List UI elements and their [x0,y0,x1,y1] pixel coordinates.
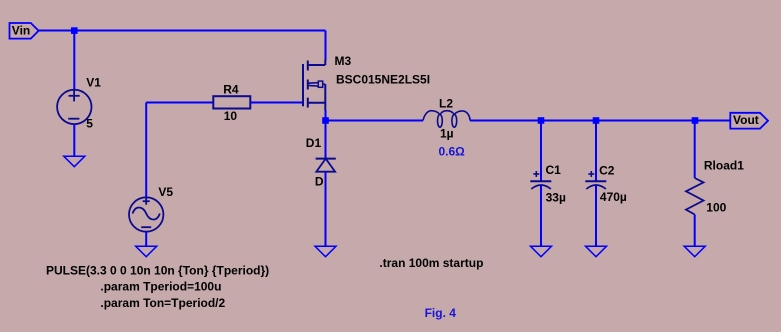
value 470µ [600,190,627,204]
junction node Vin/V1 [71,27,78,34]
svg-text:R4: R4 [223,82,239,96]
svg-text:Vout: Vout [733,113,759,127]
svg-text:1µ: 1µ [440,127,454,141]
port flag Vin [10,23,39,39]
value 10 [224,109,238,123]
directive .param Tperiod [100,280,221,294]
label C2 [599,164,615,178]
wire Rload top [694,121,696,179]
wire C1 bottom to ground [540,185,542,246]
directive .tran [379,256,483,270]
ground C2 [586,246,607,256]
value BSC015NE2LS5I [336,73,430,87]
wire M3 source to switch node [325,110,327,121]
value 33µ [546,190,566,204]
voltage source V1 [57,90,91,124]
svg-text:.tran 100m startup: .tran 100m startup [379,256,483,270]
ground V5 [136,246,157,256]
label 0.6Ω [439,145,466,159]
junction switch node [322,117,329,124]
capacitor C1 [530,171,551,189]
svg-text:V1: V1 [86,76,101,90]
resistor Rload1 [686,178,704,215]
svg-text:M3: M3 [335,54,352,68]
svg-text:D: D [315,175,324,189]
directive .param Ton [100,296,225,310]
label M3 [335,54,352,68]
wire gate net vertical (V5 to R4) [145,103,147,198]
wire Vin to top rail [39,30,326,32]
svg-text:D1: D1 [306,136,322,150]
wire switch node to D1 cathode [325,121,327,159]
resistor R4 [213,96,250,108]
svg-text:BSC015NE2LS5I: BSC015NE2LS5I [336,73,430,87]
value 5 [86,117,93,131]
svg-text:0.6Ω: 0.6Ω [439,145,466,159]
svg-text:C2: C2 [599,164,615,178]
label V5 [158,185,173,199]
label Rload1 [704,158,744,172]
capacitor C2 [585,171,606,189]
wire C2 bottom to ground [595,185,597,246]
label L2 [439,97,453,111]
value 100 [706,201,726,215]
wire V1 top [73,31,75,91]
ground Rload [684,246,705,256]
label D1 [306,136,322,150]
svg-text:Fig. 4: Fig. 4 [425,306,457,320]
wire gate net horizontal to R4 [146,102,213,104]
ground C1 [531,246,552,256]
wire switch node to L2 [326,120,424,122]
wire D1 anode to ground [325,172,327,247]
svg-text:100: 100 [706,201,726,215]
ground V1 [64,156,85,166]
wire L2 to Vout rail [470,120,730,122]
label V1 [86,76,101,90]
voltage source V5 [129,197,163,231]
junction node Rload [692,117,699,124]
value 1µ [440,127,454,141]
inductor L2 [423,111,470,128]
svg-text:L2: L2 [439,97,453,111]
junction node C2 [593,117,600,124]
wire Rload bottom to ground [694,215,696,247]
svg-text:C1: C1 [546,163,562,177]
diode D1 [316,159,336,172]
svg-text:10: 10 [224,109,238,123]
ground D1 [315,246,336,256]
svg-text:470µ: 470µ [600,190,627,204]
port flag Vout [730,113,768,129]
wire R4 to M3 gate [250,102,302,104]
directive PULSE [46,263,269,277]
svg-text:V5: V5 [158,185,173,199]
label R4 [223,82,239,96]
svg-text:5: 5 [86,117,93,131]
wire C1 top [540,121,542,182]
wire C2 top [595,121,597,182]
svg-text:PULSE(3.3 0 0 10n 10n {Ton} {T: PULSE(3.3 0 0 10n 10n {Ton} {Tperiod}) [46,263,269,277]
label C1 [546,163,562,177]
svg-text:33µ: 33µ [546,190,566,204]
caption Fig. 4 [425,306,457,320]
value D [315,175,324,189]
svg-text:.param Tperiod=100u: .param Tperiod=100u [100,280,221,294]
wire V5 bottom to ground [145,232,147,247]
svg-text:Vin: Vin [12,23,30,37]
wire V1 bottom to ground [73,124,75,156]
svg-text:Rload1: Rload1 [704,158,744,172]
junction node C1 [538,117,545,124]
svg-text:.param Ton=Tperiod/2: .param Ton=Tperiod/2 [100,296,225,310]
transistor M3 [303,60,325,111]
wire top rail down to M3 drain [325,31,327,61]
